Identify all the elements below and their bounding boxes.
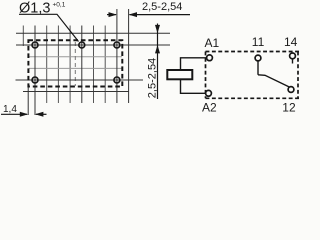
svg-text:12: 12	[282, 100, 296, 114]
svg-text:2,5-2,54: 2,5-2,54	[147, 58, 159, 98]
pin terminal 12	[288, 87, 294, 93]
hole bottom-right	[114, 77, 120, 83]
stub under pin 14	[292, 59, 294, 64]
pin terminal 14	[290, 53, 296, 59]
extension line x=128.6	[128, 9, 130, 103]
extension row y=91.5	[23, 91, 129, 93]
relay body outline (dashed rectangle)	[28, 40, 122, 86]
extension line col right pins x=116.9	[116, 9, 118, 103]
svg-text:+0,1: +0,1	[53, 1, 66, 8]
hole bottom-left	[32, 77, 38, 83]
wire pin 11 down	[257, 61, 259, 75]
pin terminal 11	[255, 55, 261, 61]
svg-text:2,5-2,54: 2,5-2,54	[142, 1, 182, 13]
coil K1	[167, 70, 192, 79]
grid horizontal lines (interior, faint)	[29, 57, 122, 69]
extension row y=33.3	[16, 32, 170, 34]
grid vertical lines	[23, 26, 105, 104]
schematic relay box (dashed)	[206, 52, 301, 99]
hole top-right	[114, 42, 120, 48]
wire A1 to coil	[181, 58, 207, 70]
hole A1 (top-left)	[32, 42, 38, 48]
leader line for hole diameter	[19, 14, 79, 41]
svg-text:11: 11	[252, 35, 265, 49]
contact arm 11 to 12	[258, 75, 289, 87]
extension line body left edge x=28.2	[27, 87, 29, 115]
extension line col mid pin x=81.8	[81, 26, 83, 104]
svg-text:A1: A1	[205, 36, 220, 50]
extension row bottom pins y=80	[16, 79, 144, 81]
extension row top pins y=45	[16, 44, 170, 46]
hole mid-top	[79, 42, 85, 48]
pin terminal A2	[206, 90, 212, 96]
svg-text:1,4: 1,4	[3, 104, 17, 115]
centerline	[74, 42, 76, 86]
svg-text:14: 14	[284, 35, 298, 49]
svg-text:A2: A2	[202, 100, 217, 114]
dimension 1,4 (bottom-left)	[1, 113, 47, 115]
dimension pitch vertical (right of footprint)	[157, 24, 159, 100]
wire coil to A2	[181, 79, 206, 93]
extension line col A1 pins x=35	[34, 26, 36, 116]
svg-text:Ø1,3: Ø1,3	[19, 1, 50, 17]
dimension pitch horizontal (top)	[107, 14, 190, 16]
pin terminal A1	[207, 55, 213, 61]
